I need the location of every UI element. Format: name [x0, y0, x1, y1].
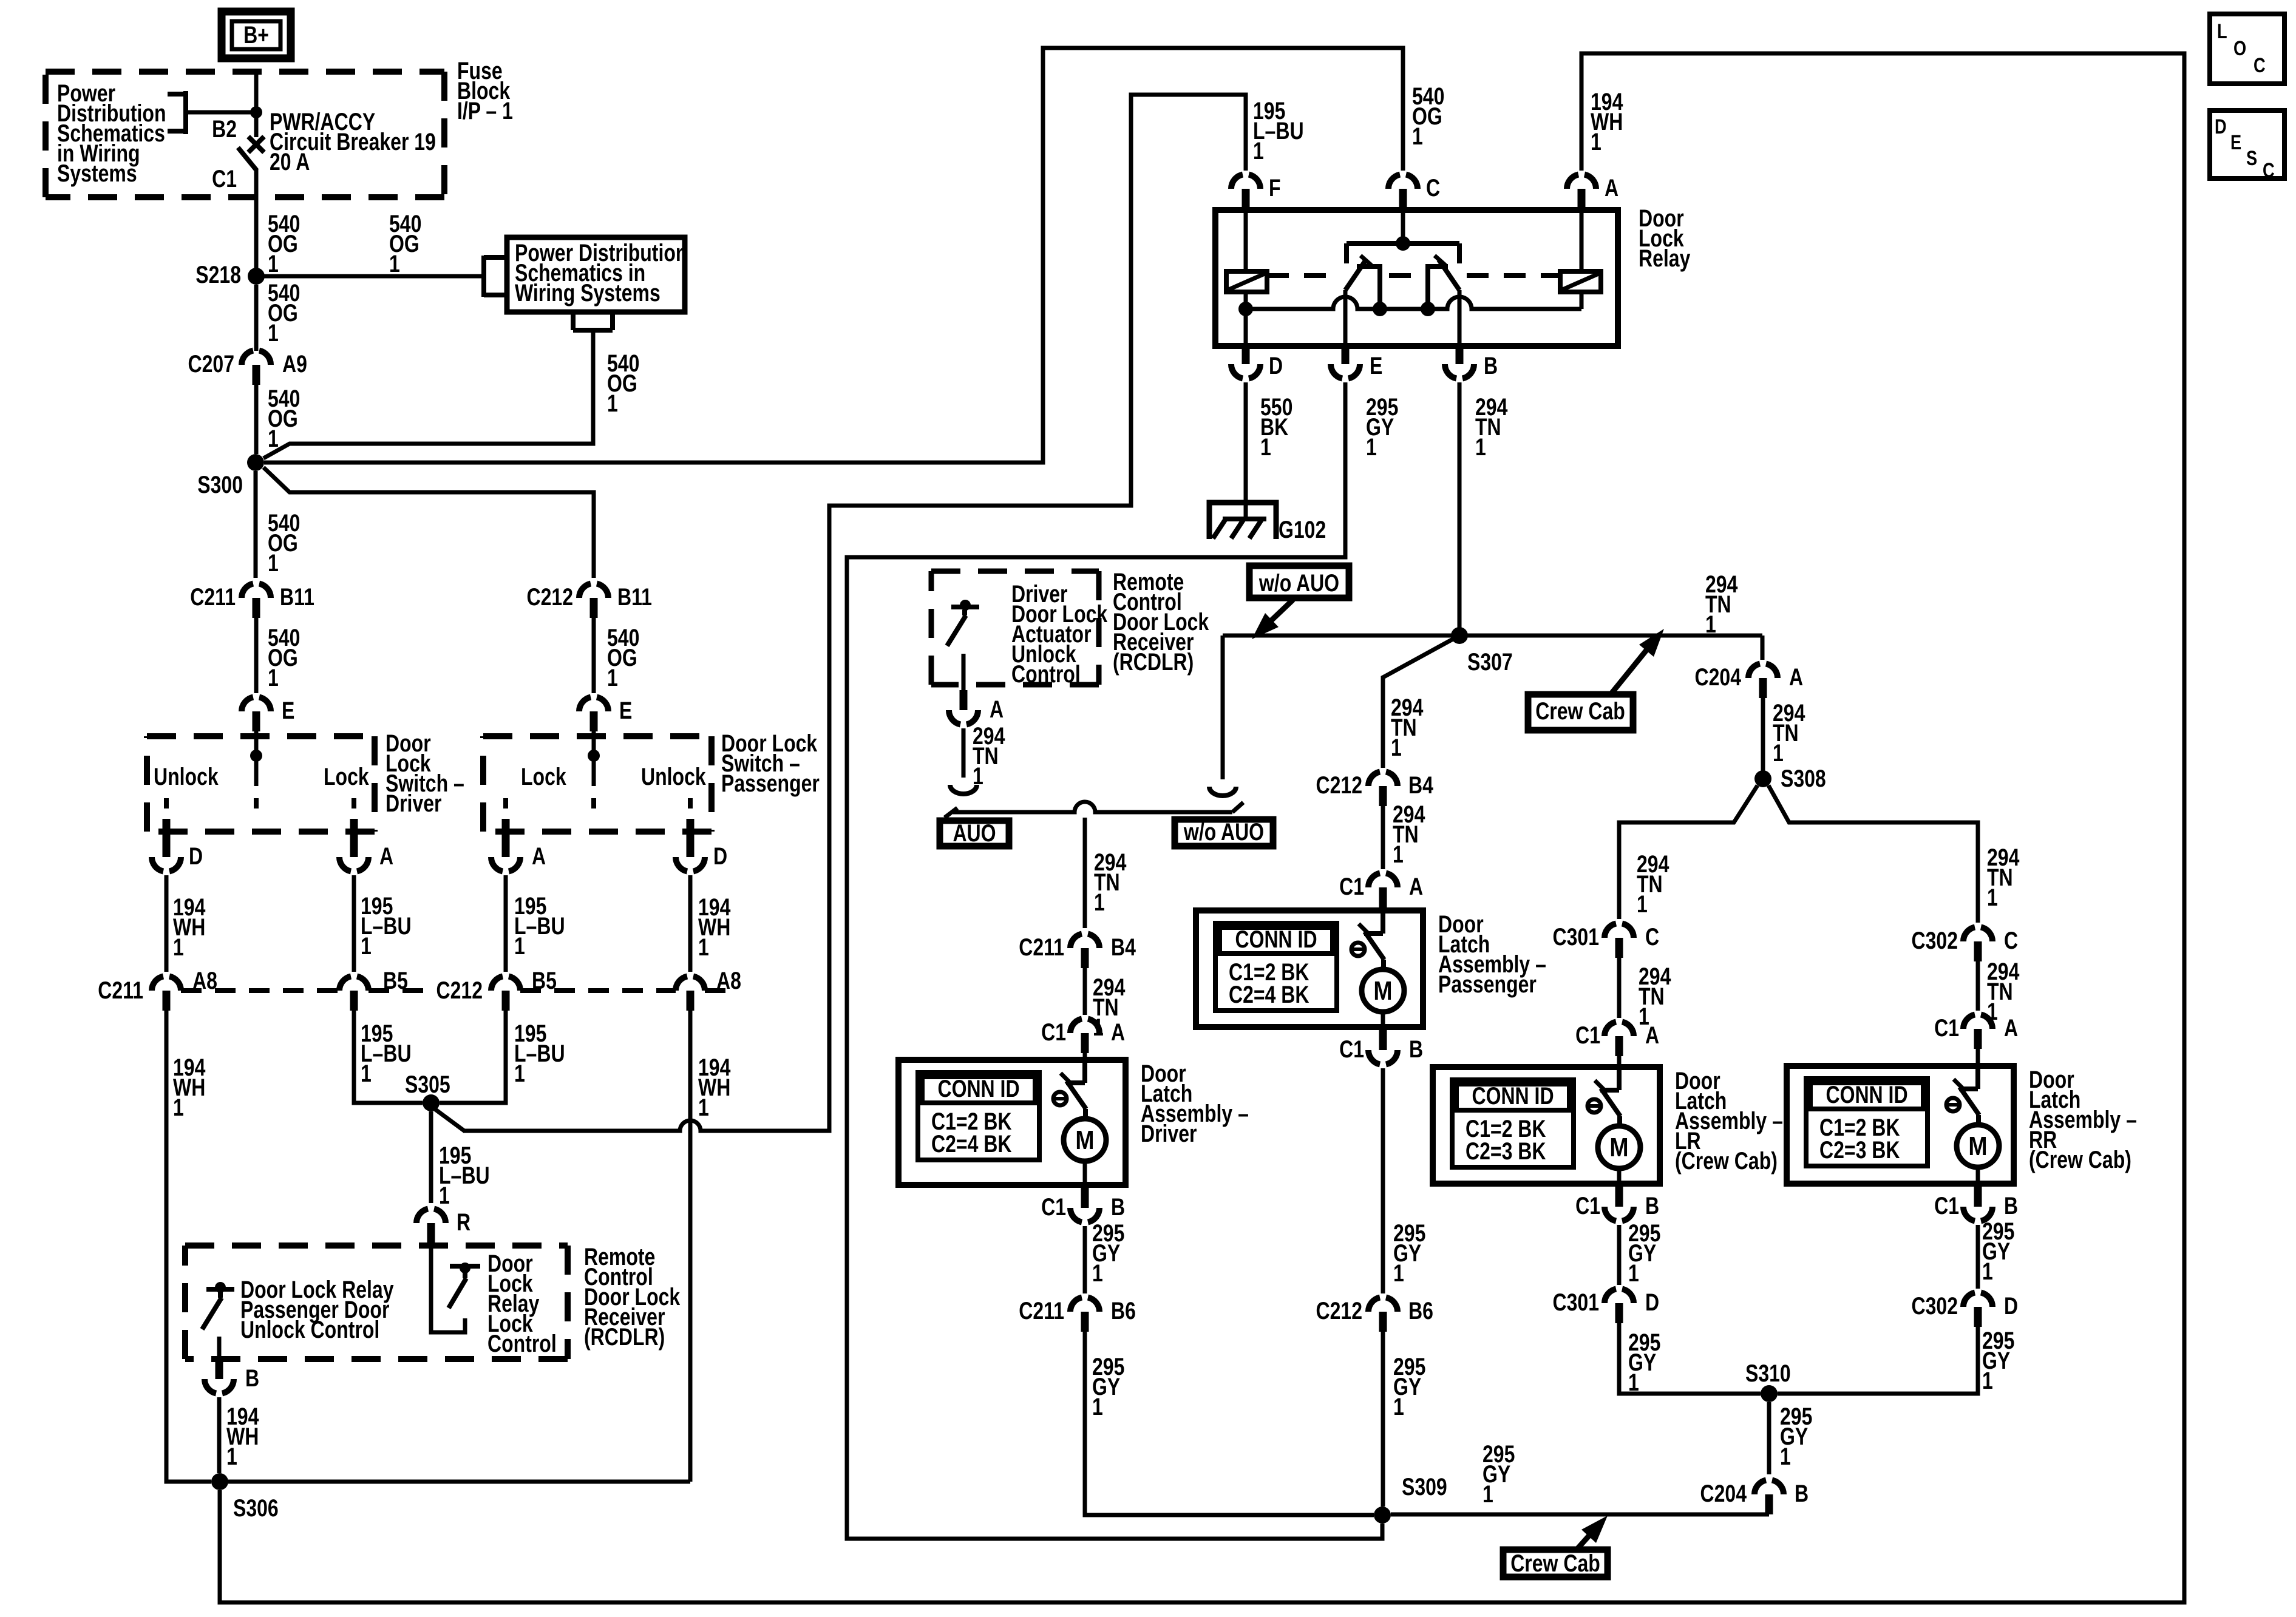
svg-text:F: F — [1269, 174, 1281, 202]
svg-text:294TN1: 294TN1 — [1705, 571, 1737, 638]
CONN ID table LR — [1452, 1080, 1574, 1167]
driver switch lock contact — [352, 798, 356, 808]
connector B relay — [1445, 364, 1474, 379]
svg-text:E: E — [1370, 352, 1382, 379]
svg-text:Door LockSwitch –Passenger: Door LockSwitch –Passenger — [721, 730, 820, 797]
svg-text:S307: S307 — [1467, 648, 1513, 676]
motor M Driver — [1064, 1119, 1106, 1161]
svg-text:M: M — [1968, 1131, 1987, 1161]
wire S307 line to C204 A — [1761, 636, 1765, 660]
wire breaker to S218 — [254, 169, 259, 276]
svg-text:295GY1: 295GY1 — [1982, 1218, 2014, 1285]
svg-text:C1: C1 — [1041, 1193, 1066, 1221]
svg-text:C204: C204 — [1694, 663, 1741, 691]
svg-text:194WH1: 194WH1 — [226, 1403, 259, 1470]
connector A relay — [1567, 175, 1596, 189]
svg-text:B: B — [1111, 1193, 1125, 1221]
splice S306 — [211, 1473, 228, 1490]
splice S309 — [1374, 1507, 1391, 1524]
svg-text:C302: C302 — [1911, 1292, 1958, 1320]
wire motor to box bottom LR — [1617, 1168, 1622, 1184]
svg-text:Crew Cab: Crew Cab — [1535, 697, 1625, 725]
splice S300 — [247, 454, 264, 471]
svg-text:540OG1: 540OG1 — [607, 350, 639, 417]
door latch assembly box - Driver — [898, 1060, 1126, 1185]
door latch assembly box - LR — [1433, 1067, 1660, 1184]
wire C301 D to S310 — [1619, 1323, 1761, 1394]
motor M LR — [1598, 1126, 1640, 1168]
svg-text:DoorLatchAssembly –Driver: DoorLatchAssembly –Driver — [1141, 1060, 1249, 1147]
w/o AUO arrow — [1268, 600, 1293, 623]
relay switch 1 arm — [1345, 260, 1366, 290]
wire driver A to C211 B5 — [352, 875, 356, 972]
svg-text:194WH1: 194WH1 — [698, 893, 730, 961]
wire C211 A8 down to S306 — [166, 1011, 211, 1482]
svg-text:B: B — [1484, 352, 1498, 379]
wire D to ground G102 — [1244, 382, 1248, 520]
svg-text:B6: B6 — [1111, 1297, 1136, 1324]
latch switch LR — [1617, 1067, 1622, 1090]
RCDLR dashed box — [185, 1246, 568, 1359]
svg-text:R: R — [457, 1209, 470, 1236]
svg-text:A: A — [1789, 663, 1803, 691]
wire right coil to bus and A stub — [1580, 209, 1584, 309]
svg-text:S305: S305 — [405, 1071, 450, 1098]
svg-text:DriverDoor LockActuatorUnlockC: DriverDoor LockActuatorUnlockControl — [1011, 580, 1108, 688]
svg-text:D: D — [189, 842, 203, 870]
splice S305 — [423, 1094, 440, 1111]
connector C1 B RR latch — [1963, 1207, 1992, 1221]
connector D relay — [1231, 364, 1260, 379]
svg-text:C: C — [2254, 53, 2266, 77]
svg-text:RemoteControlDoor LockReceiver: RemoteControlDoor LockReceiver(RCDLR) — [584, 1243, 681, 1351]
svg-text:D: D — [1269, 352, 1283, 379]
svg-text:C1: C1 — [1934, 1014, 1959, 1042]
wire C211 B4 to driver C1 A — [1083, 968, 1087, 1015]
relay switch 2 fixed contact — [1428, 266, 1448, 309]
svg-text:195L–BU1: 195L–BU1 — [439, 1142, 490, 1209]
wire AUO option horizontal with hump to C211 B4 — [945, 802, 1243, 818]
svg-text:A: A — [2004, 1014, 2018, 1042]
svg-text:B11: B11 — [280, 583, 314, 611]
connector C1 A LR latch — [1605, 1022, 1634, 1037]
wire actuator A down to AUO split — [962, 728, 966, 778]
passenger switch unlock contact — [688, 798, 693, 808]
svg-text:PWR/ACCYCircuit Breaker 1920 A: PWR/ACCYCircuit Breaker 1920 A — [270, 108, 436, 175]
svg-text:Unlock: Unlock — [154, 763, 219, 790]
svg-text:C204: C204 — [1700, 1480, 1747, 1507]
wire LR C1 B to C301 D — [1617, 1225, 1622, 1285]
svg-text:540OG1: 540OG1 — [389, 210, 421, 277]
wire E 295 GY down and around to S309 — [847, 382, 1382, 1539]
svg-text:195L–BU1: 195L–BU1 — [1253, 97, 1304, 164]
svg-text:195L–BU1: 195L–BU1 — [361, 1020, 412, 1087]
svg-text:DoorLatchAssembly –RR(Crew Cab: DoorLatchAssembly –RR(Crew Cab) — [2029, 1066, 2137, 1173]
svg-text:A: A — [1605, 174, 1618, 202]
connector C212 B4 — [1368, 772, 1398, 787]
Crew Cab callout box lower — [1503, 1550, 1608, 1577]
relay switch 1 fixed contact — [1357, 266, 1380, 309]
svg-text:540OG1: 540OG1 — [268, 624, 300, 691]
svg-text:C211: C211 — [1019, 1297, 1064, 1324]
svg-text:B: B — [245, 1364, 259, 1392]
bracket below power distribution box — [573, 313, 613, 330]
relay switch 2 arm — [1439, 260, 1459, 290]
relay internal bus with hops over E and B — [1246, 297, 1581, 309]
svg-text:C1: C1 — [1575, 1022, 1600, 1049]
svg-text:E: E — [282, 697, 294, 724]
connector C1 B LR latch — [1605, 1207, 1634, 1221]
motor M Passenger — [1362, 969, 1404, 1012]
driver switch wiper stem — [254, 756, 259, 786]
svg-text:A: A — [990, 696, 1004, 723]
CONN ID table Passenger — [1215, 923, 1337, 1011]
AUO receptacle hook — [950, 785, 977, 794]
wire AUO hump down to C211 B4 — [1083, 818, 1087, 928]
svg-text:A: A — [532, 842, 546, 870]
Crew Cab arrow upper — [1611, 646, 1649, 694]
svg-text:A: A — [1111, 1019, 1125, 1046]
wire driver D to C211 A8 — [165, 875, 169, 972]
wire C212 B6 to S309 — [1381, 1332, 1385, 1507]
motor M RR — [1957, 1125, 1999, 1167]
svg-text:B: B — [2004, 1192, 2018, 1219]
wire B+ down to breaker — [254, 69, 259, 137]
wire C302 C to RR C1 A — [1976, 961, 1980, 1011]
svg-text:M: M — [1609, 1132, 1628, 1162]
svg-text:C1: C1 — [1934, 1192, 1959, 1219]
door lock switch passenger dashed box — [483, 736, 712, 832]
connector C211 B4 — [1070, 934, 1099, 949]
svg-text:Door Lock RelayPassenger DoorU: Door Lock RelayPassenger DoorUnlock Cont… — [240, 1276, 394, 1343]
AUO callout box — [940, 821, 1009, 846]
RCDLR lock control switch — [460, 1263, 470, 1273]
svg-text:C1: C1 — [1575, 1192, 1600, 1219]
connector C204 A — [1748, 664, 1778, 679]
svg-text:M: M — [1075, 1125, 1094, 1155]
driver actuator switch — [951, 605, 979, 609]
svg-text:294TN1: 294TN1 — [1475, 393, 1507, 461]
svg-text:DoorLockRelayLockControl: DoorLockRelayLockControl — [487, 1250, 557, 1357]
wire B terminal up to switch 2 pivot — [1458, 290, 1462, 346]
svg-text:295GY1: 295GY1 — [1092, 1219, 1124, 1287]
svg-text:195L–BU1: 195L–BU1 — [361, 892, 412, 960]
driver lock output stub and connector A — [350, 819, 358, 837]
w/o AUO receptacle hook — [1209, 787, 1236, 796]
svg-text:194WH1: 194WH1 — [1591, 88, 1623, 155]
relay coil left — [1226, 271, 1267, 292]
svg-text:w/o AUO: w/o AUO — [1183, 818, 1264, 846]
svg-text:294TN1: 294TN1 — [1987, 844, 2019, 911]
svg-text:A: A — [1645, 1022, 1659, 1049]
wire C212 A8 down to S306 line — [688, 1011, 693, 1482]
wire C stub to switch bar — [1401, 209, 1405, 237]
wire C301 C to LR C1 A — [1617, 958, 1622, 1018]
wire S300 down branch to C212 passenger switch — [263, 467, 594, 578]
wire S308 to C302 C — [1768, 785, 1978, 923]
connector E relay — [1331, 364, 1360, 379]
wire C302 D to S310 — [1778, 1327, 1978, 1394]
svg-text:C212: C212 — [436, 977, 483, 1004]
svg-text:294TN1: 294TN1 — [1393, 801, 1425, 868]
svg-text:S308: S308 — [1781, 765, 1826, 792]
svg-text:w/o AUO: w/o AUO — [1258, 569, 1339, 597]
svg-text:295GY1: 295GY1 — [1780, 1403, 1812, 1470]
svg-text:M: M — [1373, 975, 1392, 1006]
svg-text:C2=3 BK: C2=3 BK — [1819, 1136, 1900, 1164]
node at breaker B2 tap — [250, 106, 262, 118]
LOC reference box — [2210, 14, 2284, 84]
driver door lock actuator dashed box — [931, 571, 1099, 685]
connector C1 A driver latch — [1070, 1019, 1099, 1034]
circuit breaker switch arm — [238, 147, 257, 171]
wire S307 diagonal to C212 B4 — [1383, 636, 1459, 768]
door latch assembly box - Passenger — [1196, 910, 1423, 1027]
wire S306 horizontal to passenger unlock — [220, 1480, 690, 1484]
wire motor to box bottom Driver — [1083, 1161, 1087, 1185]
relay coil right — [1560, 271, 1601, 292]
wire C212 B4 to passenger C1 A — [1381, 806, 1385, 869]
connector C211 A8 — [152, 977, 181, 991]
svg-text:C212: C212 — [1316, 771, 1362, 799]
wire S308 to C301 C — [1619, 785, 1758, 919]
svg-text:A: A — [1409, 873, 1423, 900]
connector C1 A passenger latch — [1368, 873, 1398, 888]
driver switch unlock contact — [164, 798, 169, 808]
svg-text:D: D — [1645, 1289, 1659, 1316]
svg-text:C207: C207 — [188, 350, 234, 378]
circuit breaker 19 contact X — [248, 137, 264, 152]
svg-text:S218: S218 — [195, 261, 241, 288]
wire left coil to D with junction — [1244, 292, 1248, 346]
wire RCDLR unlock switch to connector B — [217, 1337, 222, 1359]
svg-text:540OG1: 540OG1 — [1412, 83, 1444, 150]
passenger unlock output stub and connector D — [687, 819, 695, 837]
svg-text:294TN1: 294TN1 — [1391, 694, 1423, 761]
svg-text:FuseBlockI/P – 1: FuseBlockI/P – 1 — [457, 57, 513, 124]
svg-text:DoorLatchAssembly –LR(Crew Cab: DoorLatchAssembly –LR(Crew Cab) — [1675, 1067, 1783, 1175]
Crew Cab arrow lower — [1577, 1533, 1592, 1550]
svg-text:G102: G102 — [1279, 516, 1326, 543]
connector boundary dashed line C211/C212 — [181, 988, 738, 993]
wire F stub into coil — [1244, 209, 1248, 271]
wire S305 diagonal to relay lock wire — [435, 1109, 465, 1131]
svg-text:CONN ID: CONN ID — [1235, 926, 1317, 953]
svg-text:295GY1: 295GY1 — [1366, 393, 1398, 461]
svg-text:Unlock: Unlock — [641, 763, 706, 790]
svg-text:C: C — [2004, 927, 2018, 954]
wire S218 to C207 — [254, 285, 259, 351]
svg-text:C: C — [1426, 174, 1440, 202]
svg-text:Power DistributionSchematics i: Power DistributionSchematics inWiring Sy… — [515, 239, 687, 307]
splice S307 — [1451, 627, 1468, 644]
wire C204 A to S308 — [1761, 698, 1765, 771]
svg-text:C211: C211 — [1019, 934, 1064, 961]
wire B 294 TN down to S307 — [1458, 382, 1462, 636]
connector C302 D — [1963, 1293, 1992, 1307]
door lock relay box — [1215, 210, 1618, 346]
svg-text:194WH1: 194WH1 — [173, 893, 205, 961]
driver switch common node — [250, 750, 262, 762]
svg-text:DoorLockRelay: DoorLockRelay — [1639, 205, 1690, 272]
B+ battery terminal box — [222, 12, 291, 58]
svg-text:C2=4 BK: C2=4 BK — [1229, 981, 1309, 1008]
w/o AUO callout box upper — [1249, 566, 1349, 598]
relay switch common node — [1396, 236, 1410, 251]
wire C212 B5 to S305 — [440, 1011, 506, 1103]
svg-text:E: E — [619, 697, 632, 724]
wire R into RCDLR lock contact — [431, 1243, 465, 1332]
svg-text:CONN ID: CONN ID — [937, 1075, 1019, 1102]
door lock switch driver dashed box — [147, 736, 375, 832]
connector C1 B passenger latch — [1368, 1050, 1398, 1065]
svg-text:B: B — [1795, 1480, 1809, 1507]
svg-text:B2: B2 — [212, 115, 237, 143]
driver unlock output stub and connector D — [163, 819, 171, 837]
svg-text:Crew Cab: Crew Cab — [1510, 1550, 1600, 1577]
svg-text:O: O — [2233, 36, 2246, 60]
latch switch Passenger — [1381, 910, 1385, 934]
wire w/o AUO drop — [1221, 636, 1225, 779]
svg-text:A9: A9 — [282, 350, 307, 378]
connector C212 B5 — [491, 977, 520, 991]
svg-text:295GY1: 295GY1 — [1982, 1327, 2014, 1394]
svg-text:B4: B4 — [1408, 771, 1433, 799]
svg-text:194WH1: 194WH1 — [698, 1054, 730, 1121]
svg-text:CONN ID: CONN ID — [1472, 1082, 1554, 1110]
CONN ID table Driver — [918, 1073, 1039, 1160]
passenger lock output stub and connector A — [502, 819, 510, 837]
CONN ID table RR — [1806, 1079, 1927, 1166]
connector C212 B6 — [1368, 1298, 1398, 1312]
splice S218 — [248, 268, 265, 285]
svg-text:Lock: Lock — [521, 763, 566, 790]
svg-text:RemoteControlDoor LockReceiver: RemoteControlDoor LockReceiver(RCDLR) — [1113, 568, 1209, 676]
svg-text:C211: C211 — [98, 977, 143, 1004]
wire S218 to bracket — [256, 274, 484, 279]
svg-text:540OG1: 540OG1 — [268, 279, 300, 347]
svg-text:B6: B6 — [1408, 1297, 1433, 1324]
connector C301 D — [1605, 1289, 1634, 1304]
svg-text:S300: S300 — [197, 471, 243, 498]
svg-text:294TN1: 294TN1 — [1094, 849, 1126, 916]
power distribution schematics box — [507, 237, 685, 312]
wire RR C1 B to C302 D — [1976, 1225, 1980, 1289]
svg-text:C2=3 BK: C2=3 BK — [1466, 1137, 1546, 1165]
svg-text:C: C — [1645, 923, 1659, 951]
Crew Cab callout box upper — [1528, 694, 1633, 730]
svg-text:AUO: AUO — [953, 819, 996, 847]
wire passenger D to C212 A8 — [688, 875, 693, 972]
svg-text:540OG1: 540OG1 — [268, 210, 300, 277]
connector C204 B — [1754, 1480, 1784, 1495]
connector C1 B driver latch — [1070, 1208, 1099, 1222]
svg-text:C1: C1 — [1339, 1036, 1364, 1063]
svg-text:E: E — [2230, 131, 2241, 154]
splice S310 — [1761, 1385, 1778, 1402]
svg-text:S306: S306 — [233, 1494, 279, 1522]
svg-text:B: B — [1645, 1192, 1659, 1219]
svg-text:294TN1: 294TN1 — [1639, 963, 1671, 1030]
svg-text:294TN1: 294TN1 — [1637, 850, 1669, 918]
connector A driver actuator — [949, 710, 978, 725]
svg-text:550BK1: 550BK1 — [1260, 393, 1292, 461]
svg-text:Lock: Lock — [324, 763, 369, 790]
svg-text:C301: C301 — [1552, 923, 1599, 951]
svg-text:B: B — [1409, 1036, 1423, 1063]
latch switch Driver — [1082, 1060, 1087, 1083]
bracket to power distribution schematics — [168, 91, 186, 134]
fuse block I/P-1 dashed box — [46, 72, 444, 197]
svg-text:B11: B11 — [617, 583, 652, 611]
connector E passenger switch — [579, 697, 608, 712]
wire power dist box to S300 top branch — [263, 330, 593, 458]
RCDLR passenger unlock relay switch — [206, 1287, 234, 1292]
svg-text:194WH1: 194WH1 — [173, 1054, 205, 1121]
wire S300 to C211 driver switch — [254, 471, 258, 578]
svg-text:D: D — [2004, 1292, 2018, 1320]
connector C1 A RR latch — [1963, 1015, 1992, 1029]
svg-text:C212: C212 — [526, 583, 573, 611]
wire C212 B11 to switch E — [592, 618, 596, 693]
wire C211 B5 to S305 — [354, 1011, 423, 1103]
bracket into power distribution box — [484, 256, 506, 297]
svg-text:295GY1: 295GY1 — [1393, 1353, 1425, 1420]
svg-text:A: A — [379, 842, 393, 870]
wire driver C1 B to C211 B6 — [1083, 1226, 1087, 1293]
connector C211 pin B11 — [242, 584, 271, 598]
connector C207 pin A9 — [242, 351, 271, 365]
svg-text:540OG1: 540OG1 — [268, 509, 300, 577]
svg-text:B+: B+ — [243, 21, 269, 49]
svg-text:195L–BU1: 195L–BU1 — [514, 1020, 565, 1087]
svg-text:195L–BU1: 195L–BU1 — [514, 892, 565, 960]
connector C301 C — [1605, 924, 1634, 938]
svg-text:PowerDistributionSchematicsin: PowerDistributionSchematicsin WiringSyst… — [57, 80, 166, 187]
svg-text:294TN1: 294TN1 — [1773, 699, 1805, 767]
wire actuator switch to box bottom — [962, 654, 966, 690]
svg-text:D: D — [2215, 115, 2227, 138]
wire B to S306 — [217, 1397, 222, 1473]
wire S305 down to RCDLR R — [429, 1111, 433, 1203]
connector C211 B6 — [1070, 1298, 1099, 1312]
connector C212 pin B11 — [579, 584, 608, 598]
svg-text:540OG1: 540OG1 — [607, 624, 639, 691]
svg-text:295GY1: 295GY1 — [1092, 1353, 1124, 1420]
relay mechanical link dashed — [1267, 273, 1336, 278]
svg-text:C302: C302 — [1911, 927, 1958, 954]
wire motor to box bottom Passenger — [1381, 1012, 1385, 1027]
connector F relay — [1231, 175, 1260, 189]
svg-text:CONN ID: CONN ID — [1826, 1081, 1907, 1108]
svg-text:C: C — [2263, 158, 2275, 182]
svg-text:294TN1: 294TN1 — [973, 722, 1005, 790]
wire 294 TN S307 horizontal — [1223, 634, 1762, 638]
wire C211 B6 to S309 — [1085, 1332, 1374, 1515]
svg-text:S309: S309 — [1402, 1473, 1447, 1500]
connector C212 A8 — [676, 977, 705, 991]
wire passenger C1 B to C212 B6 — [1381, 1068, 1385, 1293]
connector R RCDLR — [416, 1209, 446, 1224]
door latch assembly box - RR — [1787, 1066, 2014, 1184]
svg-text:C2=4 BK: C2=4 BK — [931, 1130, 1011, 1158]
DESC reference box — [2210, 110, 2284, 178]
latch switch RR — [1975, 1066, 1980, 1089]
svg-text:S310: S310 — [1745, 1360, 1791, 1387]
wire S300 to door lock relay coil C (540 OG) — [264, 48, 1403, 463]
svg-text:295GY1: 295GY1 — [1393, 1219, 1425, 1287]
svg-text:S: S — [2246, 146, 2257, 170]
